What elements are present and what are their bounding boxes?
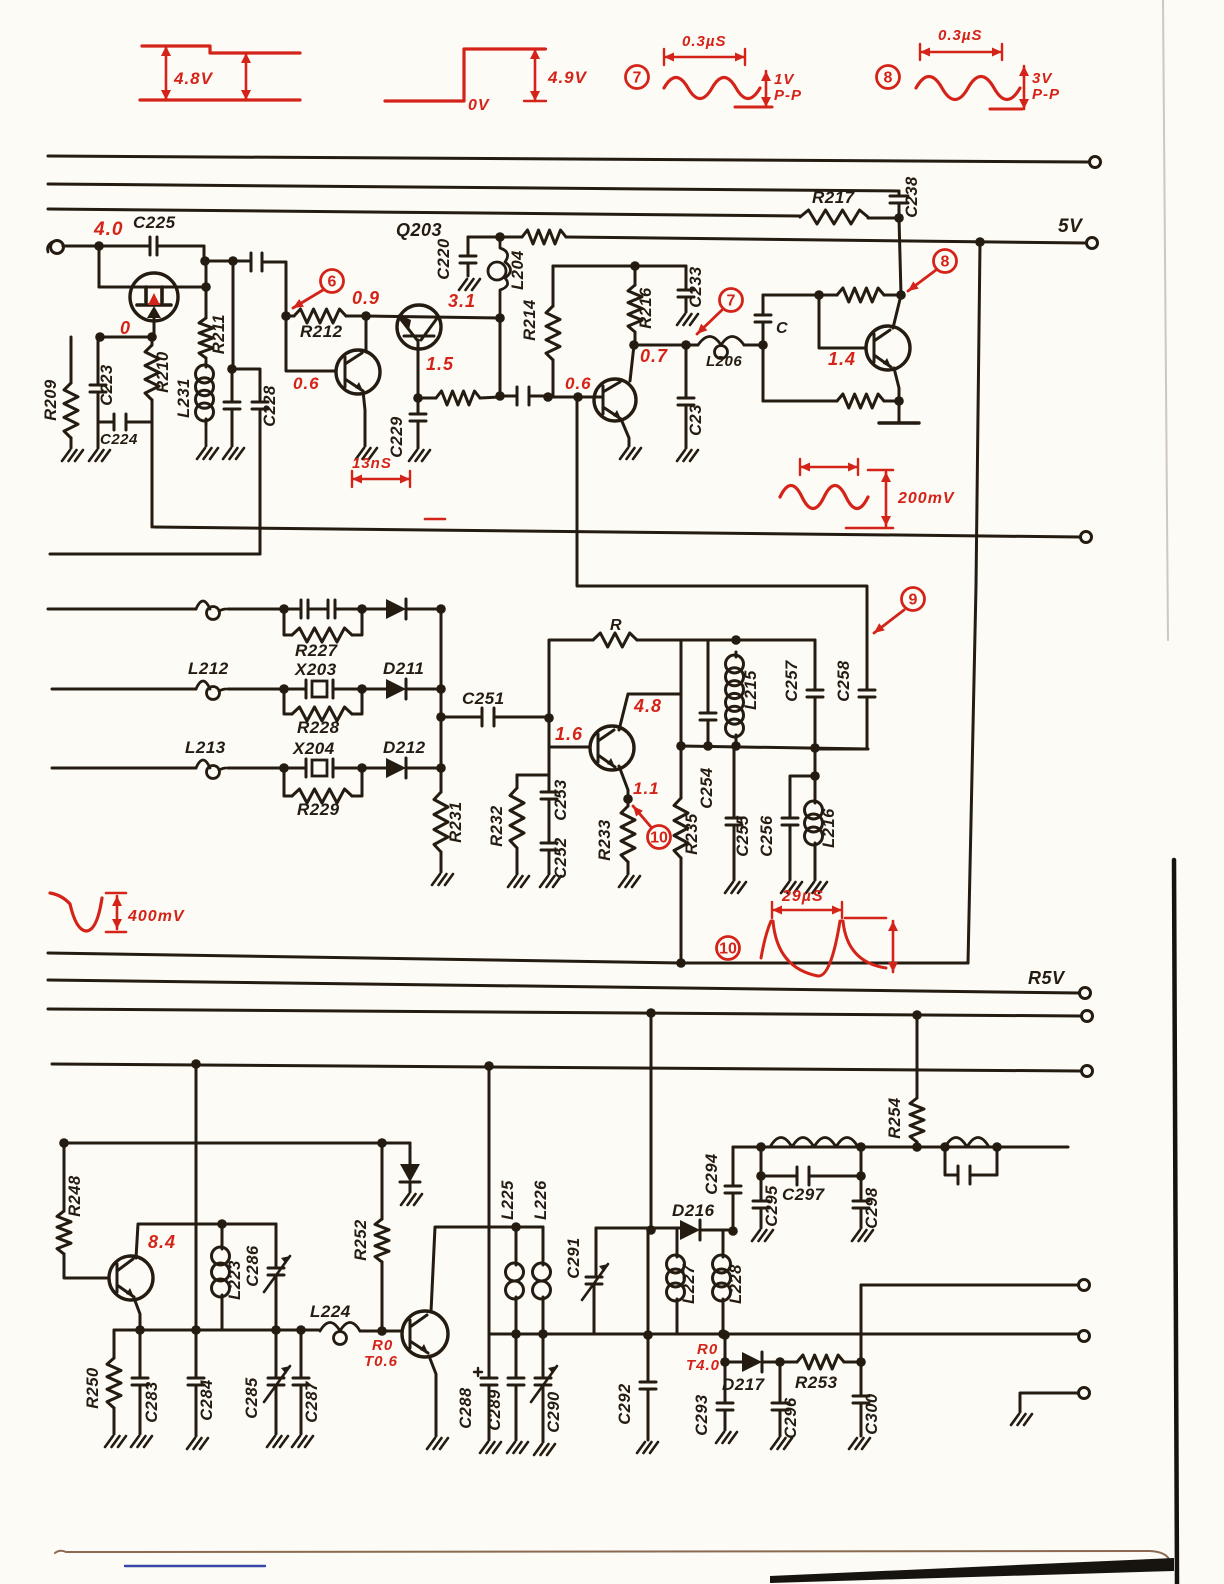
crystal X203 [284,680,306,698]
ground C228a [223,448,244,459]
terminal y1337 [1079,1331,1090,1342]
capacitor C225 [150,237,204,255]
row2 wire b [228,688,284,691]
svg-text:R252: R252 [352,1219,370,1260]
ground 06L [356,448,377,459]
node busC x196 [191,1059,201,1069]
node D217 wire left [720,1330,730,1340]
ground C290 [534,1444,555,1455]
wire L224 to base [360,1330,402,1333]
svg-text:9: 9 [909,592,918,609]
svg-text:R250: R250 [84,1367,102,1409]
collector 06L [365,316,368,352]
node L228 bottom [718,1329,728,1339]
capacitor C252 [541,799,557,874]
emitter wire T [429,1356,436,1436]
node L204 bottom [495,391,505,401]
ground C284 [187,1438,208,1449]
capacitor C296 [772,1362,788,1436]
bus line 5 [154,527,1080,537]
node C300 top [856,1357,866,1367]
svg-text:10: 10 [719,941,737,958]
svg-text:R227: R227 [295,641,339,660]
inductor L227 [676,1230,679,1252]
svg-text:D211: D211 [383,659,424,678]
emitter resistor [418,397,436,400]
wire C228b to left [50,553,260,556]
svg-text:L215: L215 [742,670,760,710]
ground C292 [637,1442,658,1453]
inductor L223 [221,1224,224,1244]
page edge right top [1163,0,1168,640]
small red dash [425,518,445,521]
wire top feedback [763,294,837,297]
svg-text:7: 7 [727,293,736,310]
circled 7 waveform 0.3uS 1V P-P [626,66,649,89]
svg-text:C288: C288 [457,1387,475,1429]
junction vertical [440,609,443,792]
vertical x917 R254 [916,1015,919,1098]
emitter bar [879,421,919,424]
transistor 0.6 right [594,379,636,421]
ground C256 [781,882,802,893]
crystal X204 [284,759,306,777]
transistor Q202 [397,305,441,349]
capacitor C257 [807,640,823,748]
node emitter Q202 [413,393,423,403]
resistor R235 [680,746,683,798]
bottom wire L215 group [681,746,868,749]
node bottom left [676,741,686,751]
series cap y262 [251,253,286,271]
svg-text:L223: L223 [226,1260,244,1300]
node LC1 right [856,1142,866,1152]
ground C220 [459,279,480,290]
svg-text:1.6: 1.6 [555,724,583,744]
svg-text:C258: C258 [835,660,853,702]
svg-text:D212: D212 [383,738,426,757]
ground L216 [806,882,827,893]
capacitor C233 [678,266,694,312]
svg-text:8: 8 [884,70,893,87]
ground R233 [619,876,640,887]
ground C23 [677,450,698,461]
svg-text:C285: C285 [243,1377,261,1419]
node C251 right [544,713,554,723]
inductor L226 [542,1227,545,1260]
svg-text:6: 6 [328,274,337,291]
return bus [48,953,968,963]
node C295 top [756,1171,766,1181]
svg-text:C287: C287 [303,1381,321,1423]
svg-text:R217: R217 [812,188,856,207]
resistor R228 [284,689,292,714]
wire input to C225 [63,245,150,248]
svg-text:C293: C293 [693,1394,711,1435]
wire C291 to D216 [596,1227,680,1230]
resistor R253 [780,1361,797,1364]
node C284 top [191,1325,201,1335]
wire Q201 left drop [98,246,101,287]
resistor R217 [800,210,868,224]
svg-text:0.3µS: 0.3µS [682,33,727,50]
svg-text:C254: C254 [698,767,716,808]
bus line 3 to R217 [48,209,800,216]
ground 06R [620,448,641,459]
node 5V vertical [975,237,985,247]
wire C238 node down [899,218,901,295]
wire L206 to node [744,344,763,347]
resistor R214 [552,266,555,306]
circled 6 [321,270,344,293]
node x651 D216 wire [646,1225,656,1235]
inductor L228 [722,1231,725,1252]
emitter 8.4 [134,1298,140,1330]
row1 coil [196,601,210,609]
ground L231 [197,448,218,459]
waveform square 4.8V [140,46,300,100]
svg-text:0V: 0V [468,97,490,114]
bus line 2 to C238 top [48,184,899,191]
red emitter mark [148,293,160,305]
circled 8 pointer [934,250,957,273]
svg-text:C256: C256 [758,815,776,857]
row2 node b [357,684,367,694]
diode D216 [680,1220,700,1240]
svg-text:L227: L227 [680,1264,698,1304]
svg-text:L225: L225 [499,1180,517,1220]
svg-text:R: R [610,617,622,634]
svg-text:X203: X203 [294,660,337,679]
capacitor C254 [700,640,716,746]
collector wire 1.4 [893,295,901,328]
transistor 0.6 left [336,350,380,394]
svg-text:R5V: R5V [1028,968,1066,988]
svg-text:C291: C291 [565,1237,583,1278]
node R211 chord [201,282,211,292]
resistor R227 [284,609,292,635]
terminal out1 [1079,1280,1090,1291]
wire y1330 [114,1329,320,1332]
terminal bus1 [1090,157,1101,168]
svg-text:R214: R214 [521,299,539,340]
svg-text:C253: C253 [552,779,570,820]
resistor R232 [516,775,519,788]
inductor L231 [205,362,208,424]
wire corner to R212 [285,262,288,316]
svg-text:7: 7 [633,70,642,87]
svg-text:R212: R212 [300,322,343,341]
row1 node a [279,604,289,614]
capacitor C288 [481,1334,497,1440]
inductor L204 [495,232,505,242]
svg-text:L224: L224 [310,1302,351,1321]
row2 coil [196,681,210,689]
row3 node b [357,763,367,773]
wire chord Q202 [366,316,500,318]
circled 9 pointer [902,588,925,611]
LC1 cap C297 [761,1147,861,1185]
ground R250 [105,1436,126,1447]
svg-text:C290: C290 [545,1391,563,1433]
node base 1.4 [814,290,824,300]
node D217 left [720,1357,730,1367]
svg-text:C220: C220 [435,238,453,280]
inductor L206 [698,337,744,346]
svg-text:R232: R232 [488,805,506,846]
output wire right [861,1284,1078,1287]
svg-text:0.9: 0.9 [352,288,380,308]
capacitor C228a [224,261,240,446]
capacitor C286 variable [268,1224,284,1330]
svg-text:R210: R210 [154,351,172,393]
node collector 1.4 [896,290,906,300]
ground C255 [725,882,746,893]
capacitor C292 [643,1330,653,1340]
svg-text:C284: C284 [198,1379,216,1420]
wire collector to L204 [499,318,502,396]
resistor R250 [113,1330,116,1358]
node C228a top [228,256,238,266]
terminal bus C [1082,1066,1093,1077]
svg-text:C238: C238 [903,176,921,218]
svg-text:L228: L228 [727,1264,745,1304]
wire y262 [205,260,251,263]
resistor R252 [381,1143,384,1219]
page corner black [770,1558,1174,1583]
svg-text:8.4: 8.4 [148,1232,176,1252]
ground stub symbol [1011,1414,1032,1425]
wire base drop [819,295,866,348]
node R252 bottom [377,1326,387,1336]
svg-text:R0: R0 [372,1337,393,1354]
svg-text:4.0: 4.0 [93,219,123,240]
svg-text:R253: R253 [795,1373,838,1392]
transistor T0.6 [402,1311,448,1357]
capacitor C287 [293,1330,309,1434]
wire L228 node down [724,1335,727,1362]
svg-text:R211: R211 [210,314,228,354]
inductor L216 [814,776,817,798]
svg-text:C286: C286 [244,1245,262,1287]
capacitor C256 [782,776,815,880]
node R214 bottom [543,392,553,402]
node L225 top [511,1222,521,1232]
svg-text:4.9V: 4.9V [547,68,588,87]
transistor Q201 [130,273,178,321]
node R235 bus [676,958,686,968]
node R216 top [630,261,640,271]
svg-text:X204: X204 [292,739,335,758]
ground R232 [508,876,529,887]
svg-text:R216: R216 [637,287,655,329]
feedback resistor bottom [763,400,837,403]
ground stub right [1020,1393,1078,1412]
node 06R base [573,392,583,402]
node C23 top [681,340,691,350]
capacitor C223 [90,337,106,448]
resistor R231 [434,792,448,852]
node busB x651 [646,1008,656,1018]
node L223 top [217,1219,227,1229]
svg-text:13nS: 13nS [352,455,392,472]
svg-text:L231: L231 [175,378,193,418]
wire base 06R [548,396,603,399]
input curl [51,241,64,254]
capacitor C290 variable [535,1334,551,1442]
svg-text:1V: 1V [774,71,795,88]
ground diode [401,1194,422,1205]
circled 8 waveform 0.3uS 3V P-P [877,66,900,89]
ground C296 [771,1438,792,1449]
svg-text:C229: C229 [388,416,406,458]
svg-text:C300: C300 [863,1393,881,1435]
capacitor C228b [232,369,268,554]
resistor R210 [151,337,154,345]
page edge bottom line [55,1551,1170,1562]
svg-text:L216: L216 [820,808,838,848]
emitter wire 1.4 [894,368,899,423]
terminal 5V [1087,238,1098,249]
svg-text:0.3µS: 0.3µS [938,27,983,44]
waveform 200mV bracket [800,459,858,475]
node L206 right [758,340,768,350]
svg-text:C257: C257 [783,660,801,702]
node L225 bottom [511,1329,521,1339]
svg-text:R235: R235 [683,813,701,855]
emitter wire 1.6 [619,766,628,799]
svg-text:3V: 3V [1032,70,1053,87]
bus C [52,1064,1081,1071]
svg-text:C292: C292 [616,1383,634,1424]
terminal bus B [1082,1011,1093,1022]
branch to R232 [517,774,549,777]
node C228 mid [227,364,237,374]
resistor R209 [70,337,73,383]
node input [94,241,104,251]
terminal R5V [1080,988,1091,999]
capacitor C251 [441,708,549,726]
circled 10b [717,937,740,960]
resistor R211 [205,261,208,318]
svg-text:C296: C296 [782,1397,800,1439]
svg-text:P-P: P-P [774,87,802,104]
capacitor C298 [853,1176,869,1228]
bus line 1 [48,156,1089,162]
node top L215 [731,635,741,645]
emitter 06R [621,419,629,446]
capacitor C229 [410,398,426,448]
svg-text:L212: L212 [188,659,229,678]
diode D217 [725,1361,742,1364]
svg-text:C: C [776,320,788,337]
svg-text:L206: L206 [706,353,742,370]
feedback resistor top [837,288,884,302]
capacitor C294 [725,1147,741,1231]
node R212 left [281,311,291,321]
vertical x651 [650,1013,653,1231]
row1 series caps [284,600,362,618]
svg-text:8: 8 [941,254,950,271]
circled 7 pointer [720,289,743,312]
inductor L225 [515,1227,518,1260]
svg-text:200mV: 200mV [897,490,955,507]
node R254 bottom [912,1142,922,1152]
node C257 bottom [810,743,820,753]
ground C289 [507,1442,528,1453]
row3 node a [279,763,289,773]
svg-text:4.8V: 4.8V [173,69,214,88]
svg-text:5V: 5V [1058,216,1083,237]
circled 10 pointer [648,826,671,849]
svg-text:L226: L226 [532,1180,550,1220]
row3 wire [52,767,196,770]
waveform step 0V/4.9V [385,49,545,101]
node 0.9 [361,311,371,321]
svg-text:C297: C297 [782,1185,826,1204]
node C287 top [296,1325,306,1335]
diode to ground [409,1143,412,1164]
base wire 1.6 [549,746,590,749]
capacitor C220 [460,237,500,276]
capacitor C [755,295,771,345]
ground C287 [292,1436,313,1447]
capacitor C295 [753,1176,769,1228]
blue mark [125,1565,265,1567]
svg-text:C298: C298 [863,1187,881,1229]
long vertical right [968,243,980,963]
row1 wire b [228,608,284,611]
capacitor C293 [717,1362,733,1430]
row2 wire [52,688,196,691]
svg-text:T0.6: T0.6 [364,1353,398,1370]
collector wire 8.4 [136,1224,276,1258]
resistor R216 [628,285,642,332]
capacitor C284 [188,1330,204,1436]
capacitor C224 [98,414,152,430]
emitter 06L [363,391,365,446]
ground R209 [62,450,83,461]
capacitor C289 [508,1334,524,1440]
node L216 tap [814,748,817,776]
node 1.1 [623,794,633,804]
node C286 bottom [271,1325,281,1335]
svg-text:1.4: 1.4 [828,349,856,369]
ground C283 [131,1436,152,1447]
LC2 coil [945,1138,989,1148]
collector 06R [630,345,634,381]
vertical out [860,1285,863,1362]
svg-text:3.1: 3.1 [448,291,476,311]
ground C288 [480,1442,501,1453]
diode D212 [362,767,386,770]
svg-text:R209: R209 [42,379,60,421]
resistor R233 [621,806,635,862]
wire C node down [762,345,765,401]
capacitor C23 [678,345,694,448]
R loop wire [549,640,593,718]
row1 diode [362,608,386,611]
resistor R248 [63,1143,66,1211]
svg-text:C23: C23 [687,404,705,436]
ground C223 [89,450,110,461]
svg-text:T4.0: T4.0 [686,1357,720,1374]
row1 node b [357,604,367,614]
row1 wire [48,608,196,611]
page edge right bottom [1174,860,1177,1584]
svg-text:C225: C225 [133,213,176,232]
svg-text:1.1: 1.1 [633,779,660,798]
